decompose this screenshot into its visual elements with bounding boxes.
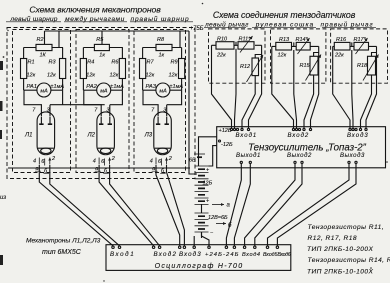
svg-text:12к: 12к (86, 73, 95, 79)
svg-text:1к: 1к (99, 53, 105, 59)
svg-text:12к: 12к (47, 73, 56, 79)
svg-text:12В=6Б: 12В=6Б (208, 215, 228, 221)
svg-text:±1мА: ±1мА (170, 84, 184, 90)
svg-text:R7: R7 (147, 60, 155, 66)
svg-text:12к: 12к (27, 73, 36, 79)
svg-text:12к: 12к (278, 53, 287, 59)
svg-text:R12: R12 (240, 64, 250, 70)
svg-text:+: + (206, 168, 210, 174)
svg-text:Тензоусилитель „Топаз-2”: Тензоусилитель „Топаз-2” (248, 143, 367, 154)
svg-text:РА1: РА1 (27, 84, 38, 90)
svg-text:Л1: Л1 (24, 133, 32, 139)
svg-text:Тензорезисторы R14, R15: Тензорезисторы R14, R15 (308, 257, 390, 264)
svg-text:12к: 12к (110, 73, 119, 79)
svg-text:R4: R4 (87, 60, 94, 66)
svg-text:тип 6МХ5С: тип 6МХ5С (42, 249, 82, 256)
svg-text:6Б: 6Б (189, 158, 196, 164)
svg-text:±1мА: ±1мА (110, 84, 124, 90)
svg-text:Механотроны Л1,Л2,Л3: Механотроны Л1,Л2,Л3 (26, 238, 101, 245)
svg-text:R5: R5 (96, 37, 104, 43)
svg-text:Вход1: Вход1 (236, 133, 258, 139)
svg-text:4: 4 (93, 159, 96, 165)
svg-text:2: 2 (51, 156, 55, 162)
svg-text:R13: R13 (279, 37, 290, 43)
svg-text:Вход2: Вход2 (288, 133, 310, 139)
svg-text:Выход1: Выход1 (236, 153, 261, 159)
svg-text:а: а (95, 166, 98, 172)
svg-text:R6: R6 (111, 60, 119, 66)
svg-text:ТИП 2ПКБ-10-200Х: ТИП 2ПКБ-10-200Х (307, 246, 373, 253)
svg-text:а: а (36, 166, 39, 172)
svg-text:22к: 22к (334, 53, 344, 59)
svg-text:Схема соединения тензодатчиков: Схема соединения тензодатчиков (213, 10, 356, 20)
svg-text:+12Б: +12Б (219, 128, 232, 134)
svg-text:Выход2: Выход2 (287, 153, 312, 159)
svg-text:+75Б: +75Б (190, 26, 204, 32)
svg-text:из: из (0, 195, 6, 201)
svg-text:-12Б: -12Б (221, 142, 233, 148)
svg-text:22к: 22к (216, 53, 226, 59)
svg-text:−: − (210, 230, 214, 236)
svg-text:мА: мА (100, 89, 108, 95)
svg-text:1к: 1к (159, 53, 165, 59)
svg-text:+24Б-24Б: +24Б-24Б (205, 252, 240, 258)
svg-text:Л3: Л3 (144, 133, 153, 139)
svg-text:R12, R17, R18: R12, R17, R18 (308, 235, 357, 242)
svg-text:R16: R16 (336, 37, 347, 43)
svg-text:12к: 12к (146, 73, 155, 79)
svg-text:7: 7 (94, 108, 98, 114)
svg-text:7: 7 (32, 108, 36, 114)
svg-text:ТИП 2ПКБ-10-100Х: ТИП 2ПКБ-10-100Х (307, 269, 373, 276)
svg-text:Вход3: Вход3 (179, 251, 202, 258)
svg-text:1К: 1К (40, 53, 47, 59)
svg-text:12к: 12к (169, 73, 178, 79)
svg-text:R17*: R17* (354, 37, 367, 43)
svg-text:±1мА: ±1мА (51, 84, 65, 90)
svg-text:R3: R3 (49, 60, 57, 66)
svg-text:Вход5: Вход5 (263, 252, 278, 258)
svg-text:R9: R9 (171, 60, 178, 66)
svg-text:R14*: R14* (296, 37, 309, 43)
svg-text:а: а (227, 203, 231, 209)
svg-text:РА2: РА2 (86, 84, 97, 90)
svg-text:Вход2: Вход2 (154, 251, 178, 258)
svg-text:R10: R10 (217, 37, 228, 43)
svg-text:Вход3: Вход3 (347, 133, 369, 139)
svg-text:2: 2 (168, 156, 172, 162)
svg-text:Тензорезисторы R11,: Тензорезисторы R11, (308, 224, 384, 231)
svg-text:2: 2 (111, 156, 115, 162)
svg-text:+: + (206, 199, 210, 205)
svg-text:7: 7 (151, 108, 155, 114)
svg-text:12Б: 12Б (203, 181, 213, 187)
svg-text:Вход6: Вход6 (278, 252, 291, 258)
svg-text:4: 4 (33, 159, 36, 165)
svg-text:R15: R15 (300, 63, 311, 69)
svg-text:R18: R18 (357, 63, 368, 69)
svg-text:а: а (152, 166, 155, 172)
svg-text:Осциллограф Н-700: Осциллограф Н-700 (155, 263, 244, 270)
svg-text:4: 4 (150, 159, 153, 165)
svg-text:Вход1: Вход1 (110, 251, 135, 258)
svg-text:R8: R8 (157, 37, 165, 43)
svg-text:мА: мА (159, 89, 167, 95)
svg-text:R1: R1 (28, 60, 35, 66)
svg-text:Выход3: Выход3 (340, 153, 365, 159)
svg-text:Л2: Л2 (87, 133, 96, 139)
svg-text:R2: R2 (37, 37, 44, 43)
svg-text:Схема включения механотронов: Схема включения механотронов (29, 5, 161, 15)
svg-text:R11*: R11* (239, 37, 252, 43)
svg-text:РА3: РА3 (146, 84, 157, 90)
svg-text:мА: мА (40, 89, 48, 95)
svg-text:Вход4: Вход4 (242, 252, 261, 258)
